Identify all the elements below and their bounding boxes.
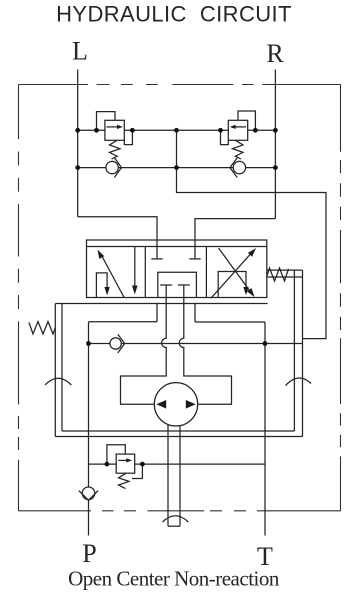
- svg-text:HYDRAULIC CIRCUIT: HYDRAULIC CIRCUIT: [56, 2, 292, 27]
- svg-text:P: P: [82, 539, 96, 568]
- svg-text:Open Center Non-reaction: Open Center Non-reaction: [68, 567, 280, 591]
- svg-text:L: L: [72, 37, 88, 66]
- svg-text:R: R: [266, 39, 284, 68]
